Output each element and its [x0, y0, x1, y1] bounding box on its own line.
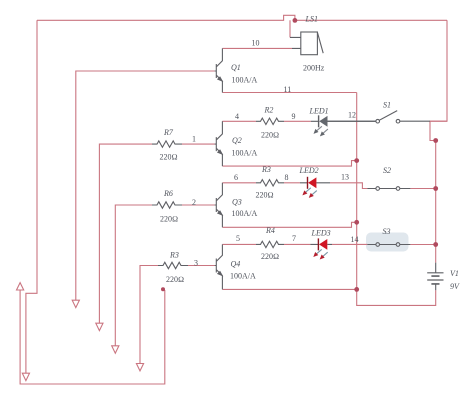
- LED3 (on, red): [310, 238, 332, 259]
- wire: Q3 emitter with jog to emitter bus: [222, 222, 356, 227]
- wire: net 4: [222, 120, 256, 122]
- svg-text:3: 3: [194, 259, 198, 268]
- svg-text:100A/A: 100A/A: [232, 76, 258, 85]
- wire: net 2 R6 to Q3 base: [182, 204, 215, 206]
- svg-text:R7: R7: [163, 128, 174, 137]
- wire: left rail from top to lower-left arrow: [26, 20, 37, 373]
- wire: net 5: [222, 243, 256, 245]
- wire: Q2 emitter with jog to emitter bus: [222, 161, 356, 167]
- svg-text:100A/A: 100A/A: [230, 272, 256, 281]
- svg-text:9V: 9V: [450, 282, 460, 291]
- svg-text:11: 11: [284, 85, 292, 94]
- wire: speaker top terminal drop from rail: [289, 20, 291, 37]
- svg-text:LED1: LED1: [309, 106, 329, 115]
- wire: right rail upper with S1 jog: [430, 20, 447, 140]
- wire: R6 left lead wire down to arrow: [115, 205, 152, 346]
- svg-text:220Ω: 220Ω: [261, 252, 279, 261]
- svg-text:5: 5: [236, 234, 240, 243]
- resistor R6: [152, 202, 182, 208]
- transistor Q1: [215, 48, 224, 92]
- junction Q3 emitter on bus: [354, 220, 359, 225]
- svg-text:220Ω: 220Ω: [160, 215, 178, 224]
- svg-text:S1: S1: [383, 100, 391, 109]
- resistor R3 (base of Q4): [158, 262, 188, 268]
- svg-text:R4: R4: [265, 226, 275, 235]
- svg-text:Q1: Q1: [231, 63, 241, 72]
- resistor R7: [152, 141, 182, 147]
- svg-text:Q4: Q4: [231, 259, 241, 268]
- wire: R3 left lead wire down to arrow: [140, 266, 158, 364]
- svg-text:8: 8: [285, 173, 289, 182]
- arrow terminal of left rail: [22, 373, 29, 380]
- wire: Q1 base net to bottom arrow: [76, 71, 215, 300]
- wire: battery negative to bottom rail and emitter bus: [357, 93, 436, 306]
- svg-text:7: 7: [292, 234, 296, 243]
- wire: net 9: [284, 120, 311, 122]
- selection highlight around S3: [366, 233, 409, 252]
- transistor Q4: [215, 244, 224, 289]
- svg-text:R3: R3: [261, 165, 271, 174]
- svg-text:Q3: Q3: [232, 197, 242, 206]
- resistor R3 (row B): [256, 180, 284, 186]
- switch S3 (closed): [367, 243, 410, 247]
- dangling wire end dot: [161, 287, 165, 291]
- svg-text:220Ω: 220Ω: [166, 275, 184, 284]
- switch S2 (closed): [367, 187, 410, 191]
- wire: net 13 LED2 anode to S2 with jog: [330, 183, 367, 189]
- LED1 (off, gray): [311, 115, 376, 136]
- svg-text:Q2: Q2: [232, 136, 242, 145]
- junction S2 to right rail: [433, 186, 438, 191]
- arrow terminal of R3 wire: [136, 364, 143, 371]
- junction S3 to right rail: [433, 242, 438, 247]
- svg-text:10: 10: [252, 39, 260, 48]
- svg-text:6: 6: [234, 173, 238, 182]
- junction Q2 emitter on bus: [354, 158, 359, 163]
- svg-text:220Ω: 220Ω: [256, 191, 274, 200]
- svg-text:100A/A: 100A/A: [232, 209, 258, 218]
- svg-text:R6: R6: [163, 189, 173, 198]
- arrow terminal of R6 wire: [112, 346, 119, 353]
- svg-text:V1: V1: [450, 269, 459, 278]
- svg-text:14: 14: [351, 235, 359, 244]
- svg-text:4: 4: [235, 112, 239, 121]
- svg-text:S2: S2: [383, 166, 391, 175]
- wire: net 10 Q1 collector to speaker: [222, 47, 292, 49]
- wire: net 8: [284, 182, 300, 184]
- wire: S2 output to right rail: [410, 188, 435, 190]
- wire: S3 output to right rail: [410, 244, 435, 246]
- junction at speaker drop on top rail: [293, 18, 298, 23]
- svg-text:200Hz: 200Hz: [303, 64, 325, 73]
- svg-text:220Ω: 220Ω: [160, 153, 178, 162]
- junction Q4 emitter on bus: [354, 287, 359, 292]
- wire: bottom-left loop with up arrow to dangling dot: [20, 290, 165, 384]
- wire: S1 output segment: [430, 120, 447, 122]
- wire: top power rail with hop: [37, 15, 447, 20]
- resistor R2: [256, 118, 284, 124]
- junction S1 to right rail: [433, 138, 438, 143]
- svg-text:LED3: LED3: [311, 229, 331, 238]
- svg-text:2: 2: [192, 198, 196, 207]
- wire: net 14 LED3 anode to S3: [332, 243, 367, 245]
- wire: net 11 Q1 emitter: [222, 92, 356, 94]
- svg-text:LS1: LS1: [305, 14, 318, 23]
- svg-text:220Ω: 220Ω: [261, 131, 279, 140]
- svg-text:12: 12: [348, 110, 356, 119]
- wire: net 6: [222, 182, 256, 184]
- svg-text:LED2: LED2: [299, 166, 319, 175]
- svg-text:R2: R2: [264, 106, 274, 115]
- svg-text:9: 9: [292, 112, 296, 121]
- svg-text:R3: R3: [169, 251, 179, 260]
- LED2 (on, red): [300, 177, 330, 198]
- wire: net 1 R7 to Q2 base: [182, 143, 215, 145]
- speaker LS1: [290, 32, 323, 55]
- svg-text:100A/A: 100A/A: [232, 148, 258, 157]
- wire: R7 left lead wire down to arrow: [99, 144, 152, 323]
- svg-text:S3: S3: [383, 227, 391, 236]
- transistor Q3: [215, 183, 224, 228]
- svg-text:1: 1: [192, 134, 196, 143]
- transistor Q2: [215, 121, 224, 166]
- arrow terminal of R7 wire: [96, 323, 103, 330]
- switch S1 (open): [328, 111, 431, 123]
- svg-text:13: 13: [341, 173, 349, 182]
- arrow terminal (up) of bottom-left wire: [17, 283, 24, 290]
- battery V1: [427, 263, 443, 291]
- wire: net 3 R3 to Q4 base: [188, 265, 215, 267]
- wire: Q4 emitter to emitter bus: [222, 288, 356, 290]
- arrow terminal of Q1 base wire: [72, 300, 79, 307]
- resistor R4: [256, 241, 284, 247]
- wire: net 7: [284, 243, 310, 245]
- wire: right rail middle to battery positive: [435, 141, 437, 263]
